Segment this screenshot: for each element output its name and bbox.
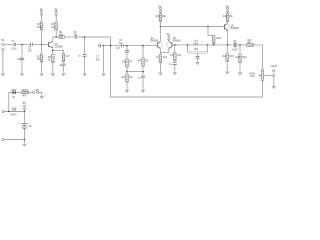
- wire R14 to Q4 collector: [227, 22, 229, 24]
- node P junction: [207, 26, 209, 28]
- ground C12: [195, 61, 200, 65]
- capacitor C6 to ground: [83, 54, 87, 56]
- wire Q3 collector up: [168, 40, 170, 41]
- wire C5 to corner: [78, 36, 111, 38]
- svg-text:1M: 1M: [17, 59, 20, 61]
- wire R1 to node B: [41, 30, 43, 45]
- wire emitter join: [160, 49, 168, 53]
- power V3 9V: [159, 4, 162, 12]
- wire switch to ground: [39, 93, 42, 95]
- battery jack BAT plus: [2, 110, 4, 112]
- wire R18 to switch: [29, 92, 33, 94]
- resistor R11 emitters: [159, 55, 162, 63]
- ground battery: [22, 143, 27, 147]
- wire node V to ground: [24, 140, 26, 143]
- wire V1 to R1: [41, 16, 43, 22]
- svg-text:R14: R14: [223, 16, 228, 18]
- wire C3 to base node: [33, 44, 48, 46]
- wire R10 to node L: [159, 22, 161, 27]
- ground node F: [101, 72, 106, 76]
- wire minus to node V: [4, 139, 24, 141]
- capacitor C12 pot wiper: [196, 56, 200, 58]
- wire V5 to R14: [227, 12, 229, 15]
- node T junction: [8, 111, 10, 113]
- capacitor C1: [14, 43, 16, 46]
- wire R4 to C4: [63, 62, 65, 64]
- resistor R14: [226, 14, 229, 22]
- wire node P to R13: [208, 27, 214, 37]
- switch SW1 contact a: [33, 91, 35, 93]
- battery jack BAT minus: [2, 138, 4, 140]
- wire node R down: [226, 45, 228, 54]
- capacitor C11: [173, 63, 177, 65]
- ground node A: [20, 72, 25, 76]
- wire Q1 emitter down: [52, 48, 54, 55]
- ground output jack: [272, 85, 277, 89]
- svg-text:9V: 9V: [23, 101, 26, 105]
- wire C9 to R7: [126, 52, 128, 59]
- wire node D down: [84, 37, 86, 54]
- input jack J1 sleeve: [2, 48, 4, 50]
- svg-text:R10: R10: [156, 16, 161, 18]
- output jack J2 sleeve: [273, 74, 275, 76]
- wire input tip to C1: [4, 44, 13, 46]
- wire C13 to R17: [237, 44, 247, 46]
- svg-text:1uF: 1uF: [28, 50, 33, 52]
- wire Q1 collector up: [52, 37, 54, 41]
- ground C11: [173, 71, 178, 75]
- wire node J down: [142, 46, 144, 58]
- capacitor C4 bypass: [62, 64, 66, 66]
- resistor R2: [40, 54, 43, 62]
- svg-text:9V: 9V: [29, 126, 32, 128]
- potentiometer VR2 volume: [249, 70, 263, 81]
- node M junction: [174, 44, 176, 46]
- capacitor C3 series: [31, 43, 33, 46]
- node L junction: [160, 26, 162, 28]
- svg-text:100k: 100k: [235, 57, 241, 59]
- capacitor C8 series 2n2: [121, 44, 123, 47]
- wire battery to node V: [24, 129, 26, 140]
- node I junction: [126, 71, 128, 73]
- label 9V BATTERY: [11, 108, 18, 116]
- wire C12 to ground: [197, 58, 199, 61]
- wire node M down: [174, 45, 176, 53]
- node G junction: [110, 45, 112, 47]
- wire line3: [208, 44, 233, 46]
- capacitor C2 to ground: [20, 58, 24, 60]
- wire R16 to ground: [239, 63, 241, 72]
- node J junction: [142, 45, 144, 47]
- svg-text:2N5088: 2N5088: [172, 41, 181, 43]
- wire Q3 base right: [172, 44, 188, 46]
- svg-text:2N5088: 2N5088: [150, 41, 159, 43]
- ground R3: [51, 72, 56, 76]
- ground R15: [225, 70, 230, 74]
- ground C10: [141, 89, 146, 93]
- wire R5 to line1: [55, 30, 57, 37]
- wire corner column down: [110, 37, 112, 97]
- capacitor C5 series: [75, 35, 77, 38]
- LED D1: [11, 89, 16, 99]
- capacitor C7 line2 end: [99, 44, 101, 47]
- resistor R13 feedback: [212, 36, 215, 44]
- node O junction pot right: [207, 44, 209, 46]
- ground R8: [125, 89, 130, 93]
- wire node S down: [239, 45, 241, 55]
- svg-text:9VDC: 9VDC: [11, 114, 18, 116]
- svg-text:LOG: LOG: [250, 76, 255, 78]
- wire C11 to ground: [174, 65, 176, 72]
- wire emitter branch: [53, 50, 64, 53]
- node K junction: [142, 71, 144, 73]
- wire R7 to node I: [126, 67, 128, 74]
- node A junction: [21, 44, 23, 46]
- wire node A down to C2: [21, 45, 23, 58]
- wire V2 to R5: [55, 16, 57, 22]
- svg-text:100k: 100k: [193, 43, 199, 45]
- resistor R1: [40, 22, 43, 30]
- svg-text:470k: 470k: [37, 27, 43, 29]
- power V6 9V: [23, 101, 26, 110]
- transistor Q3 2N5088: [167, 38, 182, 49]
- power V4 9V: [166, 32, 170, 41]
- power V5 9V: [226, 4, 229, 12]
- wire Q4 emitter down: [227, 31, 229, 45]
- resistor R9: [142, 58, 145, 66]
- bottom rail wire: [111, 96, 263, 98]
- wire node B down to R2: [41, 45, 43, 55]
- wire C2 to ground: [21, 60, 23, 72]
- resistor R12: [174, 53, 177, 61]
- node U junction: [24, 111, 26, 113]
- resistor R3 emitter: [52, 55, 55, 63]
- output jack J2 tip: [273, 70, 275, 72]
- resistor R16: [239, 55, 242, 63]
- wire rail to battery: [24, 112, 26, 124]
- battery B1 9V: [18, 123, 32, 128]
- node R junction: [227, 44, 229, 46]
- node S junction: [239, 44, 241, 46]
- wire R8 to ground: [126, 82, 128, 89]
- wire node F to ground: [103, 46, 105, 73]
- wire R13 to line3: [213, 44, 215, 45]
- svg-text:OUT: OUT: [271, 64, 278, 68]
- resistor R17 series: [247, 40, 254, 46]
- ground C6: [82, 72, 87, 76]
- wire battery rail: [4, 111, 24, 113]
- wire node H down: [126, 46, 128, 50]
- node E junction: [52, 50, 54, 52]
- switch SW1 contact b: [37, 91, 39, 93]
- svg-text:10uF: 10uF: [232, 50, 238, 52]
- power V2 9V: [54, 7, 57, 15]
- wire C6 to ground: [84, 56, 86, 72]
- power V1 9V: [40, 7, 43, 15]
- svg-text:R11: R11: [163, 57, 168, 59]
- wire R15 to ground: [226, 62, 228, 71]
- wire line2 left: [102, 45, 122, 47]
- wire C8 to Q2 base: [123, 45, 157, 47]
- capacitor C13 output series: [232, 41, 238, 52]
- ground switch: [40, 95, 45, 99]
- resistor R8: [126, 74, 129, 82]
- capacitor C10: [141, 76, 145, 78]
- wire R2 to ground: [41, 62, 43, 72]
- wire R11 to ground: [159, 63, 161, 72]
- wire LED row riser: [9, 93, 12, 112]
- resistor R4: [62, 54, 65, 62]
- transistor Q2 2N5088: [150, 38, 162, 49]
- svg-text:IN: IN: [1, 38, 4, 42]
- svg-text:100K: 100K: [249, 73, 255, 75]
- wire jack sleeve to ground: [2, 50, 4, 72]
- wire node I link: [127, 71, 143, 73]
- wire line1 left: [53, 36, 59, 38]
- wire R17 to pot: [254, 45, 263, 97]
- wire C4 to ground: [63, 66, 65, 72]
- wire C10 to ground: [142, 78, 144, 89]
- wire collector line: [160, 26, 224, 28]
- svg-text:220k: 220k: [216, 38, 222, 40]
- capacitor C9: [125, 50, 129, 52]
- transistor Q4 2N5088: [224, 23, 239, 30]
- ground C4: [61, 72, 66, 76]
- resistor R15: [226, 54, 229, 62]
- svg-text:2N5088: 2N5088: [55, 47, 64, 49]
- potentiometer VR1 Sus 100k: [188, 41, 208, 56]
- node B junction: [41, 44, 43, 46]
- resistor R7: [126, 59, 129, 67]
- wire Q2 collector up: [159, 27, 161, 42]
- node D junction: [84, 36, 86, 38]
- svg-text:R16: R16: [242, 57, 247, 59]
- svg-text:DPDT: DPDT: [22, 90, 29, 92]
- svg-text:100n: 100n: [11, 49, 17, 51]
- resistor R18 CLR: [22, 90, 29, 98]
- resistor R6 series: [59, 32, 65, 38]
- node Q junction: [213, 44, 215, 46]
- ground R2: [39, 72, 44, 76]
- transistor Q1 2N5088: [48, 41, 63, 48]
- input jack J1 tip: [2, 43, 4, 45]
- ground R11: [158, 71, 163, 75]
- wire pot wiper to jack: [264, 74, 273, 76]
- wire V3 to R10: [159, 12, 161, 15]
- wire R3 to ground: [52, 63, 54, 73]
- svg-text:2N5088: 2N5088: [230, 28, 239, 30]
- svg-text:ATT: ATT: [12, 110, 17, 113]
- wire R6 to C5: [65, 36, 75, 38]
- node C junction: [55, 36, 57, 38]
- resistor R10: [159, 14, 162, 22]
- wire R12 to C11: [174, 61, 176, 63]
- node F junction: [103, 45, 105, 47]
- svg-text:R15: R15: [230, 56, 235, 58]
- wire jack to ground: [273, 77, 275, 85]
- wire pot line: [188, 44, 208, 46]
- ground R16: [238, 71, 243, 75]
- node V junction: [24, 139, 26, 141]
- node N junction pot left: [187, 44, 189, 46]
- wire LED to R18: [15, 92, 21, 94]
- resistor R5 collector load: [55, 22, 58, 30]
- ground input jack: [1, 72, 6, 76]
- node H junction: [126, 45, 128, 47]
- svg-text:R12: R12: [177, 55, 182, 57]
- wire C1 to node A: [17, 44, 31, 46]
- wire Q2 emitter down: [159, 49, 161, 55]
- wire R9 to node K: [142, 66, 144, 75]
